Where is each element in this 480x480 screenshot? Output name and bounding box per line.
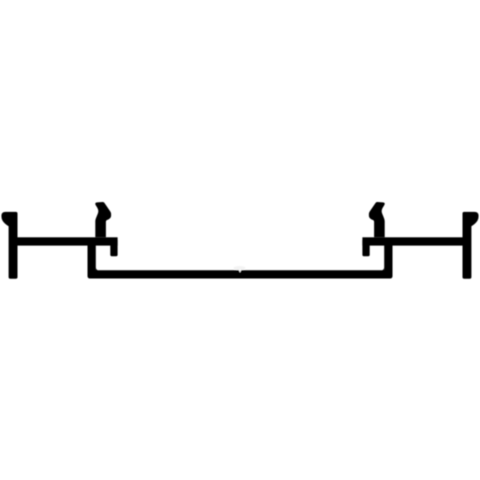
centre notch — [239, 270, 242, 273]
left clip lower leg — [110, 240, 117, 256]
top rail left — [14, 237, 118, 245]
right inner fillet — [381, 267, 384, 271]
left glazing clip (flame) — [95, 202, 111, 237]
top rail right — [362, 237, 466, 245]
right clip lower leg — [362, 240, 369, 256]
centre mark smudge — [234, 266, 246, 270]
right step-down web — [384, 244, 392, 275]
left end flange (hooked vertical bar) — [1, 212, 17, 279]
left inner fillet — [96, 267, 99, 271]
right glazing clip (flame) — [369, 202, 385, 237]
bottom rail — [88, 270, 393, 278]
right end flange (hooked vertical bar) — [463, 212, 479, 279]
left step-down web — [88, 244, 96, 275]
